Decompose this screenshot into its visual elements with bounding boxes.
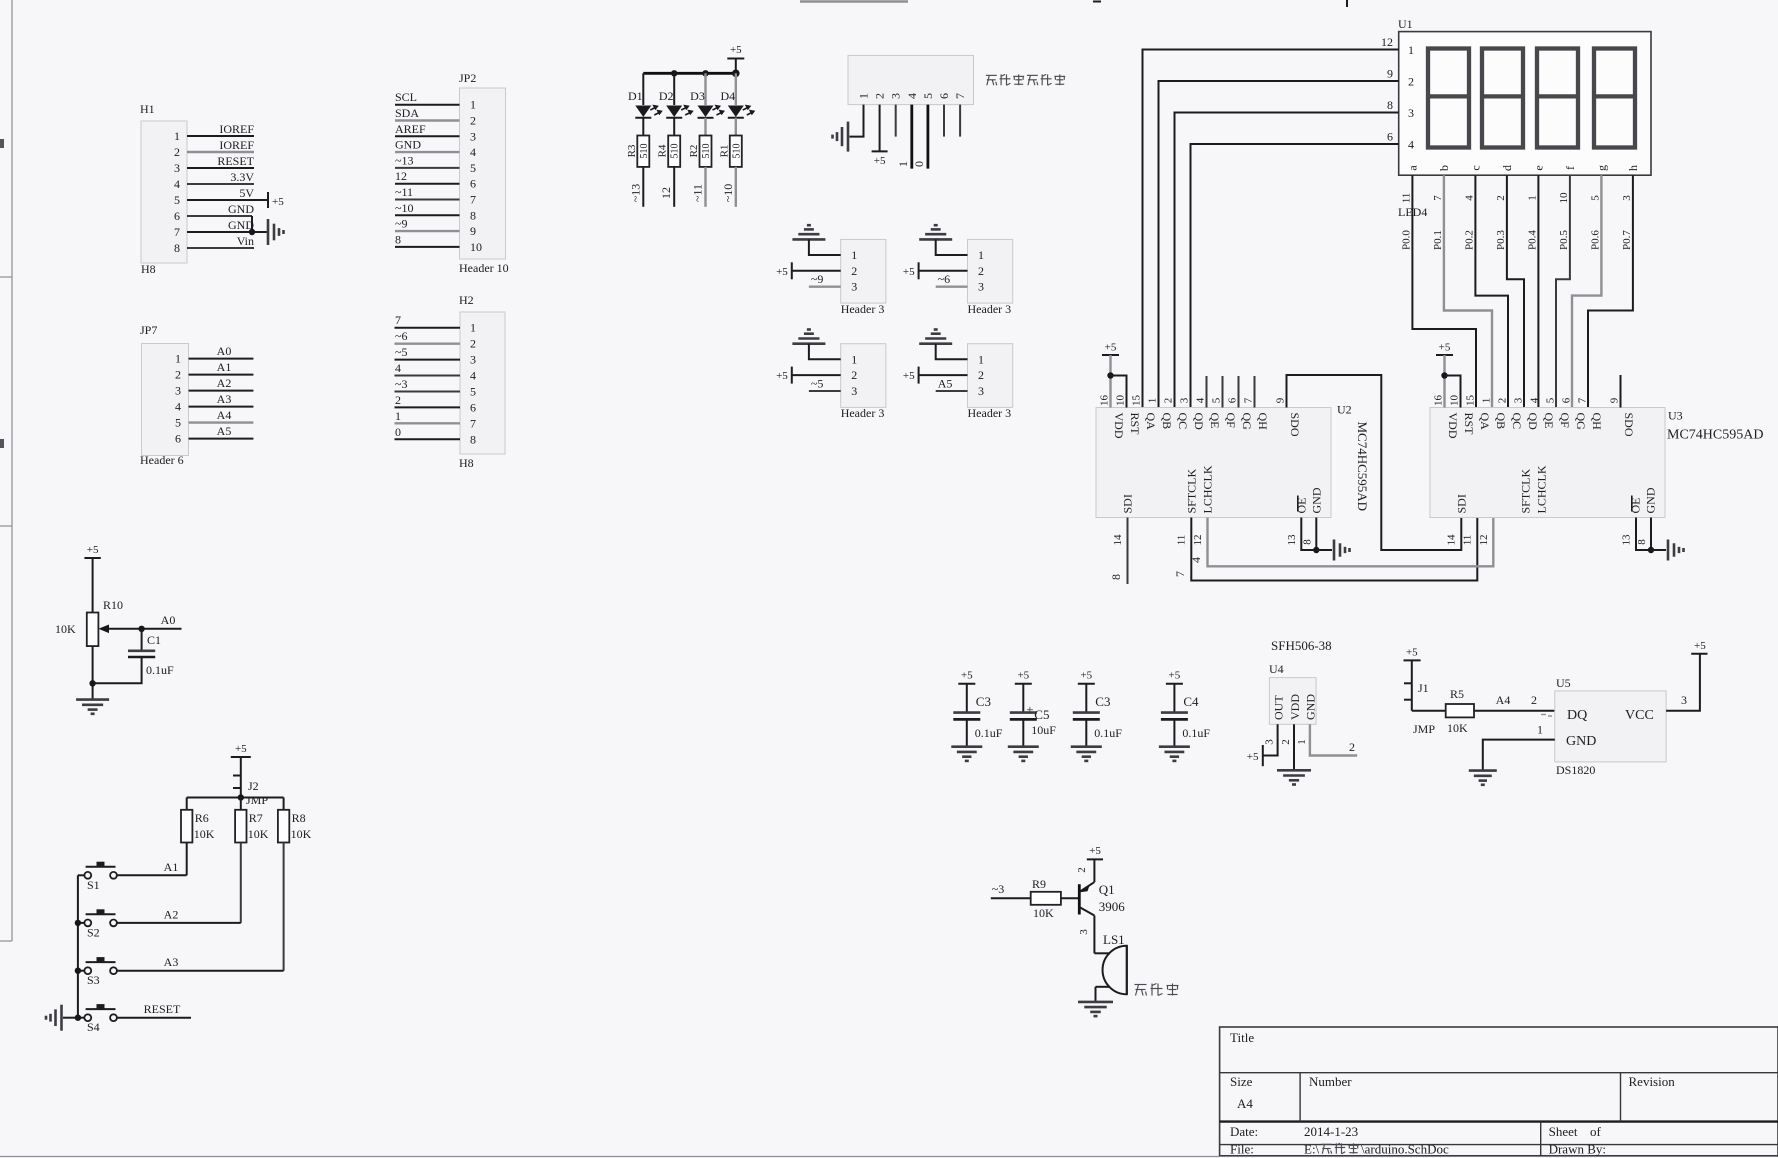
svg-text:VDD: VDD (1112, 413, 1126, 439)
wire U5 GND pin1 to ground (1483, 723, 1555, 771)
svg-text:QE: QE (1208, 413, 1222, 429)
svg-text:Header 10: Header 10 (459, 261, 509, 275)
wire JP7 pin 3 net A2 (189, 376, 254, 391)
wire H2 pin 6 net 2 (395, 393, 461, 408)
wire net ~3 to R9 (991, 882, 1031, 898)
svg-text:10: 10 (1558, 192, 1570, 204)
wire wireless pin1 to ground (850, 105, 864, 137)
connector wireless module (P?) (848, 55, 974, 104)
svg-text:6: 6 (174, 209, 180, 223)
svg-text:Vin: Vin (237, 234, 254, 248)
wire Header3 pin3 net ~6 (936, 272, 968, 287)
U3 SDO stub pin9 (1620, 375, 1622, 408)
jumper J2 JMP (233, 776, 268, 808)
svg-text:3: 3 (978, 384, 984, 398)
svg-text:Sheet: Sheet (1549, 1124, 1578, 1139)
svg-text:~11: ~11 (691, 184, 705, 202)
wire R7 to S2 net A2 (240, 843, 242, 923)
wire Header3 pin1 to ground (809, 239, 841, 255)
svg-text:g: g (1594, 165, 1608, 171)
wire U2 SDI pin14 net 8 (1109, 518, 1128, 585)
wire Header3 pin2 to +5 (792, 270, 841, 272)
wire U4 VDD pin2 to ground (1293, 724, 1295, 770)
svg-text:RESET: RESET (217, 154, 254, 168)
svg-text:A3: A3 (217, 392, 232, 406)
U2 top pin numbers (1099, 395, 1287, 407)
svg-text:QF: QF (1558, 413, 1572, 429)
wire JP2 pin 2 net SDA (395, 106, 460, 121)
wire U2 SDO pin9 to U3 SDI pin14 (1287, 375, 1462, 550)
sheet border top marks (800, 0, 1347, 7)
svg-text:10: 10 (1449, 395, 1461, 407)
svg-text:S1: S1 (87, 878, 100, 892)
wire JP2 pin 9 net ~9 (395, 217, 460, 232)
wire +5 rail to R6 R7 R8 (187, 794, 284, 800)
svg-text:A4: A4 (217, 408, 232, 422)
svg-text:5: 5 (921, 93, 935, 99)
svg-text:12: 12 (395, 169, 407, 183)
wire U1 segment a pin 11 net P0.0 to U3 QA (1400, 175, 1476, 407)
wire H2 pin 7 net 1 (395, 409, 461, 424)
svg-text:3: 3 (978, 280, 984, 294)
svg-text:+5: +5 (1439, 342, 1451, 354)
svg-text:P0.3: P0.3 (1495, 230, 1507, 250)
svg-text:~3: ~3 (395, 377, 408, 391)
svg-text:+5: +5 (87, 544, 99, 556)
svg-text:~9: ~9 (811, 272, 824, 286)
title block (1220, 1027, 1778, 1157)
wire U3 OE pin13 GND pin8 (1621, 518, 1667, 554)
connector Header 3 (968, 344, 1013, 421)
svg-text:9: 9 (470, 224, 476, 238)
svg-text:A0: A0 (161, 613, 176, 627)
svg-text:2: 2 (470, 337, 476, 351)
label 蜂鸣器 (1135, 984, 1179, 996)
svg-text:2: 2 (1076, 867, 1088, 873)
svg-text:~5: ~5 (811, 377, 824, 391)
svg-text:4: 4 (470, 369, 476, 383)
svg-text:6: 6 (1387, 130, 1393, 144)
svg-text:SFH506-38: SFH506-38 (1271, 638, 1332, 653)
power +5 on H1 pin 5V (268, 192, 284, 208)
wire H1 GND pin6 to pin7 (249, 216, 255, 235)
svg-text:Header 3: Header 3 (841, 406, 885, 420)
svg-text:QB: QB (1160, 413, 1174, 430)
resistor R9 10K (1031, 877, 1061, 920)
svg-text:h: h (1626, 165, 1640, 171)
svg-text:8: 8 (1302, 539, 1314, 545)
connector H1 (140, 102, 187, 276)
svg-text:5: 5 (1211, 397, 1223, 403)
svg-text:LS1: LS1 (1103, 932, 1125, 947)
wire LS1 to ground (1095, 987, 1097, 1002)
svg-text:~5: ~5 (395, 345, 408, 359)
power +5 Header3 pin2 (776, 367, 792, 384)
wire U1 segment f pin 10 net P0.5 to U3 QF (1556, 175, 1570, 407)
svg-text:H1: H1 (140, 102, 155, 116)
svg-text:C3: C3 (1095, 694, 1110, 709)
svg-text:AREF: AREF (395, 122, 426, 136)
svg-text:4: 4 (1529, 397, 1541, 403)
LED D3 (690, 73, 725, 135)
svg-text:GND: GND (1643, 487, 1657, 513)
svg-text:1: 1 (1537, 723, 1543, 737)
svg-text:0.1uF: 0.1uF (1182, 726, 1210, 740)
svg-text:Title: Title (1230, 1030, 1254, 1045)
svg-text:MC74HC595AD: MC74HC595AD (1667, 428, 1763, 443)
svg-text:5: 5 (470, 161, 476, 175)
svg-text:+5: +5 (1406, 646, 1418, 658)
svg-text:+5: +5 (776, 266, 788, 278)
wire JP2 pin 4 net GND (395, 138, 460, 153)
wire U1 segment d pin 2 net P0.3 to U3 QD (1495, 175, 1524, 407)
svg-text:3: 3 (889, 93, 903, 99)
svg-text:S4: S4 (87, 1020, 100, 1034)
svg-text:8: 8 (470, 208, 476, 222)
svg-text:3: 3 (1264, 739, 1276, 745)
svg-text:P0.6: P0.6 (1589, 230, 1601, 250)
svg-text:+5: +5 (1089, 845, 1101, 857)
svg-text:8: 8 (174, 241, 180, 255)
svg-text:OUT: OUT (1272, 695, 1286, 720)
svg-text:7: 7 (174, 225, 180, 239)
power +5 U2 VDD RST (1102, 342, 1127, 408)
power +5 Q1 emitter (1087, 845, 1103, 859)
wire R8 to S3 net A3 (283, 843, 285, 971)
wire U1 pin 2 net 9 to U2 (1159, 67, 1399, 408)
svg-text:7: 7 (1577, 397, 1589, 403)
wire U1 pin 1 net 12 to U2 (1143, 35, 1399, 408)
svg-text:d: d (1500, 165, 1514, 171)
power +5 J2 (231, 743, 251, 776)
ground U3 (1668, 540, 1684, 561)
svg-text:1: 1 (896, 161, 910, 167)
wire Header3 pin3 net ~9 (809, 272, 841, 287)
svg-text:H2: H2 (459, 293, 474, 307)
svg-text:File:: File: (1230, 1142, 1254, 1157)
svg-text:VDD: VDD (1446, 413, 1460, 439)
wire H2 pin 3 net ~5 (395, 345, 461, 360)
sheet border left edge (0, 0, 12, 941)
svg-text:13: 13 (1286, 534, 1298, 546)
svg-text:7: 7 (953, 93, 967, 99)
wire R1 to net ~10 (721, 167, 736, 207)
svg-text:4: 4 (1408, 138, 1414, 152)
svg-text:4: 4 (1463, 195, 1475, 201)
IC U2 MC74HC595AD (1096, 403, 1370, 518)
svg-text:15: 15 (1465, 395, 1477, 407)
svg-text:Revision: Revision (1629, 1074, 1676, 1089)
svg-text:1: 1 (470, 98, 476, 112)
jumper J1 JMP (1404, 681, 1446, 736)
capacitor C3 0.1uF (951, 670, 1003, 761)
wire H1 pin 5 net 5V (187, 186, 268, 200)
wire U2 LCHCLK pin12 net 4 to U3 (1189, 518, 1493, 567)
wire JP7 pin 1 net A0 (189, 344, 254, 359)
capacitor C3 0.1uF (1071, 670, 1123, 761)
svg-text:OE: OE (1628, 498, 1642, 514)
svg-text:SDA: SDA (395, 106, 419, 120)
svg-text:SFTCLK: SFTCLK (1518, 468, 1532, 513)
U2 QE-QH stubs (1207, 376, 1255, 408)
svg-text:D2: D2 (659, 89, 674, 103)
wire Header3 pin3 net ~5 (809, 377, 841, 392)
svg-text:2: 2 (851, 368, 857, 382)
wire H1 pin 6 net GND (187, 202, 254, 216)
svg-text:12: 12 (1381, 35, 1393, 49)
svg-text:9: 9 (1275, 397, 1287, 403)
svg-text:JMP: JMP (246, 793, 268, 807)
resistor R4 510 (657, 136, 681, 167)
power +5 Header3 pin2 (903, 367, 919, 384)
svg-text:10K: 10K (248, 827, 269, 841)
svg-text:1: 1 (851, 248, 857, 262)
wire U5 VCC pin3 to +5 (1666, 654, 1700, 711)
svg-text:0: 0 (912, 161, 926, 167)
wire R9 to Q1 base (1061, 897, 1078, 899)
svg-text:VCC: VCC (1625, 708, 1654, 723)
svg-text:~9: ~9 (395, 217, 408, 231)
resistor R5 10K (1446, 687, 1474, 735)
wire S1 right contact net A1 (117, 860, 187, 876)
svg-text:0.1uF: 0.1uF (1094, 726, 1122, 740)
svg-text:0.1uF: 0.1uF (975, 726, 1003, 740)
svg-text:2: 2 (851, 264, 857, 278)
svg-text:+5: +5 (272, 196, 284, 208)
svg-text:R6: R6 (195, 811, 209, 825)
svg-text:2: 2 (175, 368, 181, 382)
potentiometer R10 10K (55, 598, 123, 646)
svg-text:RST: RST (1128, 413, 1142, 436)
svg-text:3: 3 (1621, 195, 1633, 201)
svg-text:3: 3 (851, 280, 857, 294)
wire R10 bottom to ground (89, 646, 95, 700)
svg-text:10K: 10K (291, 827, 312, 841)
svg-text:8: 8 (470, 432, 476, 446)
U1 digit 1 segments (1428, 49, 1469, 148)
svg-text:10: 10 (470, 240, 482, 254)
connector Header 3 (841, 344, 886, 421)
wire H1 pin 8 net Vin (187, 234, 254, 248)
wire wireless pin2 to +5 (879, 105, 881, 152)
svg-text:15: 15 (1131, 395, 1143, 407)
ground H1 (268, 219, 284, 245)
ground R10 (76, 700, 109, 714)
wire JP2 pin 1 net SCL (395, 90, 460, 105)
svg-text:510: 510 (701, 144, 712, 159)
svg-text:P0.1: P0.1 (1432, 230, 1444, 250)
wire wireless pin3 stub (895, 105, 897, 137)
svg-text:U1: U1 (1398, 17, 1413, 31)
svg-text:12: 12 (659, 187, 673, 199)
IC U3 MC74HC595AD (1430, 408, 1763, 518)
U1 digit 4 segments (1594, 49, 1635, 148)
svg-text:10uF: 10uF (1031, 723, 1056, 737)
svg-text:Header 3: Header 3 (968, 406, 1012, 420)
svg-text:GND: GND (395, 138, 421, 152)
wire H2 pin 8 net 0 (395, 425, 461, 440)
svg-text:6: 6 (175, 432, 181, 446)
ground U2 (1334, 540, 1350, 561)
wire Header3 pin1 to ground (936, 239, 968, 255)
svg-text:2: 2 (395, 393, 401, 407)
U1 digit 3 segments (1537, 49, 1578, 148)
svg-text:1: 1 (1526, 195, 1538, 201)
buzzer LS1 (1094, 932, 1126, 994)
svg-text:DQ: DQ (1567, 708, 1587, 723)
capacitor C1 0.1uF (93, 629, 174, 684)
U3 bottom pin numbers (1446, 534, 1491, 546)
svg-text:A2: A2 (164, 907, 179, 921)
svg-text:5: 5 (174, 193, 180, 207)
svg-text:510: 510 (731, 144, 742, 159)
svg-text:7: 7 (1173, 571, 1187, 577)
svg-text:JP7: JP7 (140, 323, 157, 337)
svg-text:6: 6 (1227, 397, 1239, 403)
svg-text:QC: QC (1176, 413, 1190, 430)
switch S2 (84, 909, 117, 939)
svg-text:2014-1-23: 2014-1-23 (1304, 1124, 1358, 1139)
svg-text:10K: 10K (1033, 906, 1054, 920)
svg-text:R5: R5 (1450, 687, 1464, 701)
svg-text:3: 3 (851, 384, 857, 398)
wire JP2 pin 7 net ~11 (395, 185, 460, 200)
svg-text:Header 6: Header 6 (140, 453, 184, 467)
svg-text:10K: 10K (194, 827, 215, 841)
svg-text:P0.2: P0.2 (1463, 230, 1475, 250)
svg-text:2: 2 (978, 264, 984, 278)
ground Header3 pin1 (919, 225, 952, 239)
svg-text:E:\: E:\ (1304, 1142, 1320, 1157)
svg-text:2: 2 (470, 114, 476, 128)
wire Header3 pin1 to ground (809, 344, 841, 360)
svg-text:QF: QF (1224, 413, 1238, 429)
ground Header3 pin1 (792, 330, 825, 344)
svg-text:OE: OE (1294, 498, 1308, 514)
wire U1 segment h pin 3 net P0.7 to U3 QH (1588, 175, 1633, 407)
svg-text:16: 16 (1099, 395, 1111, 407)
svg-text:c: c (1468, 165, 1482, 170)
svg-text:QA: QA (1144, 413, 1158, 431)
U1 digit 2 segments (1482, 49, 1523, 148)
svg-text:Drawn By:: Drawn By: (1549, 1142, 1606, 1157)
svg-text:S2: S2 (87, 925, 100, 939)
svg-text:13: 13 (1621, 534, 1633, 546)
svg-text:DS1820: DS1820 (1556, 763, 1595, 777)
svg-text:A4: A4 (1496, 693, 1511, 707)
wire U1 pin 4 net 6 to U2 (1191, 130, 1399, 408)
svg-text:QG: QG (1240, 413, 1254, 431)
svg-text:U5: U5 (1556, 676, 1571, 690)
svg-text:U2: U2 (1337, 403, 1352, 417)
svg-text:3: 3 (470, 129, 476, 143)
svg-text:7: 7 (1432, 195, 1444, 201)
svg-text:GND: GND (228, 202, 254, 216)
svg-text:1: 1 (1481, 398, 1493, 404)
wire U1 segment b pin 7 net P0.1 to U3 QB (1432, 175, 1492, 407)
svg-text:H8: H8 (141, 262, 156, 276)
svg-text:5: 5 (1589, 195, 1601, 201)
svg-text:10K: 10K (1447, 721, 1468, 735)
svg-text:+5: +5 (1017, 670, 1029, 682)
svg-text:8: 8 (395, 232, 401, 246)
svg-text:QE: QE (1542, 413, 1556, 429)
wire H2 pin 5 net ~3 (395, 377, 461, 392)
svg-text:+5: +5 (730, 44, 742, 56)
svg-text:+5: +5 (1247, 751, 1259, 763)
svg-text:GND: GND (1309, 487, 1323, 513)
svg-text:LCHCLK: LCHCLK (1535, 465, 1549, 513)
svg-text:3: 3 (470, 353, 476, 367)
svg-text:A3: A3 (164, 955, 179, 969)
ground U4 (1277, 770, 1311, 784)
wire H2 pin 2 net ~6 (395, 329, 461, 344)
svg-text:+5: +5 (1694, 640, 1706, 652)
svg-text:+: + (1026, 702, 1033, 717)
wire R10 wiper net A0 (98, 613, 181, 633)
svg-text:10: 10 (1115, 395, 1127, 407)
svg-text:~6: ~6 (938, 272, 951, 286)
wire U1 segment c pin 4 net P0.2 to U3 QC (1463, 175, 1508, 407)
svg-text:1: 1 (1296, 739, 1308, 745)
svg-text:Q1: Q1 (1099, 882, 1115, 897)
svg-text:3: 3 (1078, 929, 1090, 935)
svg-text:S3: S3 (87, 973, 100, 987)
svg-text:U4: U4 (1269, 662, 1284, 676)
svg-text:A5: A5 (217, 424, 232, 438)
svg-text:14: 14 (1112, 534, 1124, 546)
LED D4 (720, 73, 755, 135)
power +5 Header3 pin2 (903, 262, 919, 279)
svg-text:R8: R8 (292, 811, 306, 825)
connector Header 3 (968, 239, 1013, 316)
LED D1 (628, 73, 663, 135)
svg-text:b: b (1437, 165, 1451, 171)
resistor R1 510 (718, 136, 742, 167)
svg-text:2: 2 (1408, 75, 1414, 89)
wire H1 pin 3 net RESET (187, 154, 255, 168)
svg-text:7: 7 (470, 193, 476, 207)
svg-text:4: 4 (905, 93, 919, 99)
svg-text:2: 2 (1495, 195, 1507, 201)
svg-text:11: 11 (1400, 193, 1412, 204)
power +5 R10 (84, 544, 100, 613)
svg-text:J2: J2 (248, 779, 259, 793)
svg-text:2: 2 (1531, 693, 1537, 707)
svg-text:1: 1 (174, 129, 180, 143)
resistor R6 10K (181, 798, 215, 843)
wire wireless pin5 net 0 (912, 105, 928, 169)
svg-text:8: 8 (1109, 574, 1123, 580)
wire Header3 pin2 to +5 (792, 374, 841, 376)
svg-text:IOREF: IOREF (219, 122, 254, 136)
wire H1 pin 1 net IOREF (187, 122, 254, 136)
wire R6 to S1 net A1 (186, 843, 188, 876)
svg-text:QC: QC (1510, 413, 1524, 430)
ground switches (46, 1005, 62, 1031)
svg-text:1: 1 (857, 93, 871, 99)
sheet border zone letter fragments (0, 139, 4, 448)
svg-text:IOREF: IOREF (219, 138, 254, 152)
svg-text:12: 12 (1478, 535, 1490, 546)
power +5 U5 VCC (1691, 640, 1707, 654)
svg-text:~10: ~10 (395, 201, 414, 215)
svg-text:510: 510 (670, 144, 681, 159)
svg-text:~11: ~11 (395, 185, 413, 199)
svg-text:4: 4 (175, 400, 181, 414)
connector JP2 (459, 71, 509, 275)
wire U1 segment e pin 1 net P0.4 to U3 QE (1526, 175, 1538, 407)
